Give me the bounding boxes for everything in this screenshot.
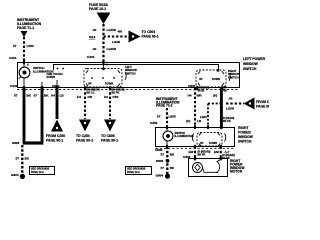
svg-text:WR: WR [197, 94, 203, 98]
left power window switch box [18, 63, 240, 88]
wire ground chain right 57 BK [166, 147, 168, 175]
svg-text:BK: BK [25, 157, 30, 161]
wire H2 P-W dashed to C806 [109, 88, 111, 119]
wire H4 LB thick to FROM C250 [56, 88, 59, 119]
motor wire labels [189, 150, 230, 154]
connector TO C806 [104, 120, 116, 132]
svg-text:EM: EM [189, 150, 194, 154]
label R REAR BK-PK [223, 117, 234, 123]
svg-text:LB/R: LB/R [27, 44, 35, 48]
svg-text:BK PK: BK PK [223, 120, 231, 123]
svg-text:TO C254: TO C254 [76, 134, 90, 138]
svg-text:UP: UP [200, 142, 204, 145]
svg-text:ILLUMINATION: ILLUMINATION [175, 134, 194, 138]
svg-text:PAGE 90-1: PAGE 90-1 [76, 139, 93, 143]
wire connector dashes under box2 edge [156, 147, 235, 149]
svg-text:RIGHT: RIGHT [238, 126, 249, 130]
svg-text:H4: H4 [51, 94, 55, 98]
svg-text:DOWN: DOWN [105, 83, 113, 86]
connector arrow from instrument illumination [21, 31, 28, 38]
wire bulb bottom [23, 78, 25, 88]
connector C from fuse [97, 13, 111, 25]
pin ticks bottom edge box2 [166, 145, 222, 149]
bulb switch illumination right [163, 131, 173, 141]
svg-text:PAGE 90-1: PAGE 90-1 [101, 139, 118, 143]
svg-text:BK PK: BK PK [198, 154, 206, 157]
wire one-touch to bottom edge [56, 80, 58, 88]
wire 40 LG/RD vertical dashed [102, 24, 104, 62]
svg-text:MOTOR: MOTOR [230, 170, 243, 174]
wire label 57 LB/R [13, 44, 34, 48]
svg-text:POWER: POWER [238, 131, 251, 135]
svg-text:C204: C204 [87, 55, 95, 59]
svg-text:BK: BK [170, 153, 175, 157]
svg-text:.40: .40 [92, 47, 97, 51]
connector FROM C254 [244, 98, 255, 110]
pin ticks top edge box2 [166, 125, 223, 129]
svg-text:P/W: P/W [113, 95, 119, 99]
svg-text:SWITCH: SWITCH [228, 75, 239, 79]
svg-text:C250: C250 [150, 121, 158, 125]
svg-text:H4: H4 [77, 95, 81, 99]
wire 57 BK thick left [23, 88, 26, 143]
wire ground chain left 57 BK [21, 145, 23, 174]
svg-text:G804: G804 [156, 173, 164, 177]
svg-text:C210: C210 [9, 56, 17, 60]
connector TO C254 [79, 120, 91, 132]
svg-text:C210: C210 [10, 84, 18, 88]
pin ticks motor box [194, 157, 222, 160]
node LEFT POWER WINDOW SWITCH label [243, 57, 266, 71]
svg-text:PAGE 71-1: PAGE 71-1 [17, 26, 34, 30]
wire 57 LB/R vertical dashed to C210 [23, 37, 25, 62]
svg-text:LG/W: LG/W [226, 107, 234, 111]
left window switch contacts sub-box [84, 69, 122, 88]
motor internal wire [203, 168, 218, 173]
svg-text:(H): (H) [213, 94, 217, 98]
svg-text:SWITCH: SWITCH [243, 67, 257, 71]
right power window motor box [189, 159, 228, 177]
svg-text:LEFT POWER: LEFT POWER [243, 57, 266, 61]
svg-text:TO C904: TO C904 [142, 30, 156, 34]
bulb switch illumination left [19, 67, 30, 78]
svg-text:W DB: W DB [198, 90, 205, 93]
svg-text:BK: BK [44, 94, 49, 98]
wire internal rail [54, 65, 219, 71]
wire bulb top [23, 62, 25, 67]
wire H4 DB dashed to C254 [84, 88, 86, 119]
svg-text:57: 57 [157, 115, 161, 119]
svg-text:S806: S806 [12, 141, 20, 145]
svg-text:PAGE 14-2: PAGE 14-2 [31, 171, 44, 174]
wire to motor left [194, 147, 196, 160]
svg-text:57: 57 [13, 44, 17, 48]
node RIGHT POWER WINDOW MOTOR label [230, 159, 245, 174]
pin A (C210 entry) [23, 61, 25, 64]
wire 57 LB/R to C250 [166, 108, 168, 127]
svg-text:PAGE 90-1: PAGE 90-1 [142, 35, 159, 39]
svg-text:S/14: S/14 [89, 35, 96, 39]
svg-text:PAGE 14-2: PAGE 14-2 [127, 171, 140, 174]
svg-text:EM: EM [214, 150, 219, 154]
see grounds box right [126, 167, 152, 175]
svg-text:PAGE 90-1: PAGE 90-1 [46, 139, 63, 143]
see grounds box left [30, 167, 55, 175]
svg-text:BK: BK [224, 90, 228, 93]
svg-text:(H): (H) [186, 119, 190, 123]
pin A (C204 entry) [102, 61, 104, 64]
connector arrow to C904 [129, 31, 141, 43]
svg-text:BK: BK [170, 166, 175, 170]
node LEFT WINDOW SWITCH label [125, 65, 137, 75]
right window switch contacts sub-box [196, 70, 226, 87]
node SWITCH ILLUMINATION label right [175, 131, 194, 138]
svg-text:FROM C250: FROM C250 [46, 134, 65, 138]
wire connector dashes under box1 edge [17, 89, 240, 91]
wire to motor right [220, 147, 222, 160]
svg-text:DOWN: DOWN [212, 78, 220, 81]
svg-text:LB/R: LB/R [200, 115, 208, 119]
node RIGHT POWER WINDOW SWITCH label [238, 126, 254, 144]
wire label 40 LG/RD lower [92, 47, 117, 51]
svg-text:DOWN: DOWN [209, 142, 217, 145]
svg-text:TO C806: TO C806 [101, 134, 115, 138]
svg-text:57: 57 [34, 94, 38, 98]
wire 57 BK thick second [41, 88, 44, 143]
svg-text:WINDOW: WINDOW [238, 135, 254, 139]
svg-text:4M: 4M [118, 30, 123, 34]
svg-text:.40: .40 [228, 97, 233, 101]
svg-text:SWITCH: SWITCH [238, 140, 252, 144]
node SWITCH ILLUMINATION label left [33, 66, 54, 73]
svg-text:UP: UP [199, 78, 203, 81]
wire dashed variant loop [208, 103, 221, 105]
svg-text:PAGE 90-1: PAGE 90-1 [256, 105, 269, 109]
wire labels row below box1 [14, 94, 64, 98]
wire 40 LG/W horizontal dashed from C254 [226, 102, 244, 104]
node INSTRUMENT ILLUMINATION label [17, 18, 42, 30]
svg-text:C804: C804 [188, 84, 196, 88]
svg-text:DOWN: DOWN [47, 75, 56, 79]
svg-text:FROM C254: FROM C254 [256, 100, 269, 104]
wire label 40 LG/RD upper [92, 28, 117, 32]
node INSTRUMENT ILLUMINATION 71-2 label [156, 97, 180, 108]
svg-text:LG/RD: LG/RD [107, 28, 117, 32]
svg-text:57: 57 [161, 153, 165, 157]
svg-text:PAGE 71-2: PAGE 71-2 [156, 104, 173, 108]
svg-text:PAGE 10-1: PAGE 10-1 [89, 7, 106, 11]
wire 4M LG/W horizontal dashed to C904 [104, 36, 130, 38]
svg-text:LG/RD: LG/RD [107, 47, 117, 51]
label BK REAR BK-PK [112, 89, 125, 95]
node ONE TOUCH DOWN label [47, 72, 63, 79]
splice S806 [166, 159, 170, 163]
svg-text:57: 57 [16, 157, 20, 161]
svg-text:S806: S806 [156, 159, 164, 163]
svg-text:A: A [27, 64, 29, 67]
connector FROM C250 [51, 120, 63, 132]
motor symbol [193, 163, 203, 173]
right switch contacts sub-box [197, 133, 222, 147]
svg-text:WINDOW: WINDOW [243, 62, 259, 66]
node FUSE 5 15A label [89, 3, 109, 11]
svg-text:.40: .40 [92, 28, 97, 32]
svg-text:H2: H2 [104, 95, 108, 99]
svg-text:G904: G904 [11, 173, 19, 177]
svg-text:BK: BK [27, 94, 32, 98]
svg-text:LG/W: LG/W [112, 40, 120, 44]
label BK REAR BK-LG [87, 89, 100, 95]
wire 57 BK thick from box1 to box2 [220, 88, 223, 127]
svg-text:57: 57 [161, 166, 165, 170]
pin ticks bottom edge box1 [23, 86, 224, 90]
right power window switch box [156, 128, 235, 147]
wire H4 LB dashed from box1 to box2 [194, 88, 196, 127]
svg-text:SWITCH: SWITCH [125, 71, 136, 75]
node RIGHT WINDOW SWITCH label [228, 69, 240, 79]
splice bar [23, 141, 44, 144]
svg-text:LB/R: LB/R [169, 115, 177, 119]
svg-text:H4: H4 [188, 94, 192, 98]
svg-text:UP: UP [88, 83, 92, 86]
node TO C904 label [142, 30, 159, 39]
svg-text:C803: C803 [155, 148, 163, 152]
svg-text:DB: DB [88, 95, 93, 99]
svg-text:57: 57 [14, 94, 18, 98]
